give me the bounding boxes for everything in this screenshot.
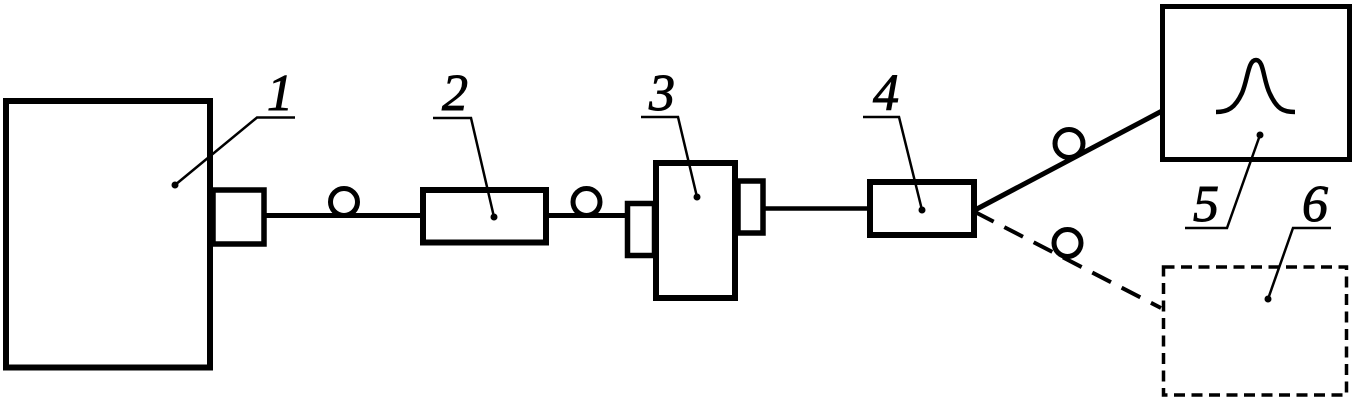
spectrum peak curve inside box 5 (1216, 60, 1295, 112)
box 1 (laser source) (6, 101, 210, 368)
fiber loop on solid branch (1055, 130, 1083, 158)
box 5 (analyzer with spectrum) (1163, 7, 1350, 160)
fiber loop on dashed branch (1054, 230, 1081, 257)
leader dot 3 (694, 194, 701, 201)
dashed fiber from box 4 to box 6 (975, 212, 1161, 308)
leader line for label 3 (641, 117, 697, 197)
wire from box 2 to component 3 (546, 213, 627, 218)
leader line for label 6 (1268, 228, 1331, 299)
component 3 main body (656, 163, 735, 298)
connector stub on box 1 output (213, 190, 264, 244)
svg-text:2: 2 (442, 65, 468, 122)
solid fiber from box 4 to box 5 (975, 111, 1162, 210)
svg-text:4: 4 (873, 65, 899, 122)
svg-text:5: 5 (1193, 176, 1219, 233)
leader line for label 5 (1185, 135, 1260, 228)
box 4 (870, 182, 974, 235)
wire from component 3 to box 4 (763, 206, 869, 211)
wire from box 1 to box 2 (266, 213, 424, 218)
leader line for label 2 (433, 118, 494, 217)
svg-text:6: 6 (1302, 176, 1328, 233)
svg-text:1: 1 (267, 65, 293, 122)
leader line for label 1 (175, 118, 295, 186)
leader dot 6 (1265, 296, 1272, 303)
leader dot 2 (491, 214, 498, 221)
box 2 (423, 190, 546, 243)
leader dot 4 (919, 207, 926, 214)
fiber loop on wire 2-3 (573, 189, 600, 216)
leader dot 1 (172, 182, 179, 189)
fiber loop on wire 1-2 (331, 189, 358, 216)
svg-text:3: 3 (648, 65, 675, 122)
leader line for label 4 (863, 117, 922, 210)
box 6 (dashed instrument) (1164, 267, 1347, 395)
component 3 input stub (628, 204, 655, 256)
leader dot 5 (1257, 132, 1264, 139)
component 3 output stub (738, 181, 763, 233)
